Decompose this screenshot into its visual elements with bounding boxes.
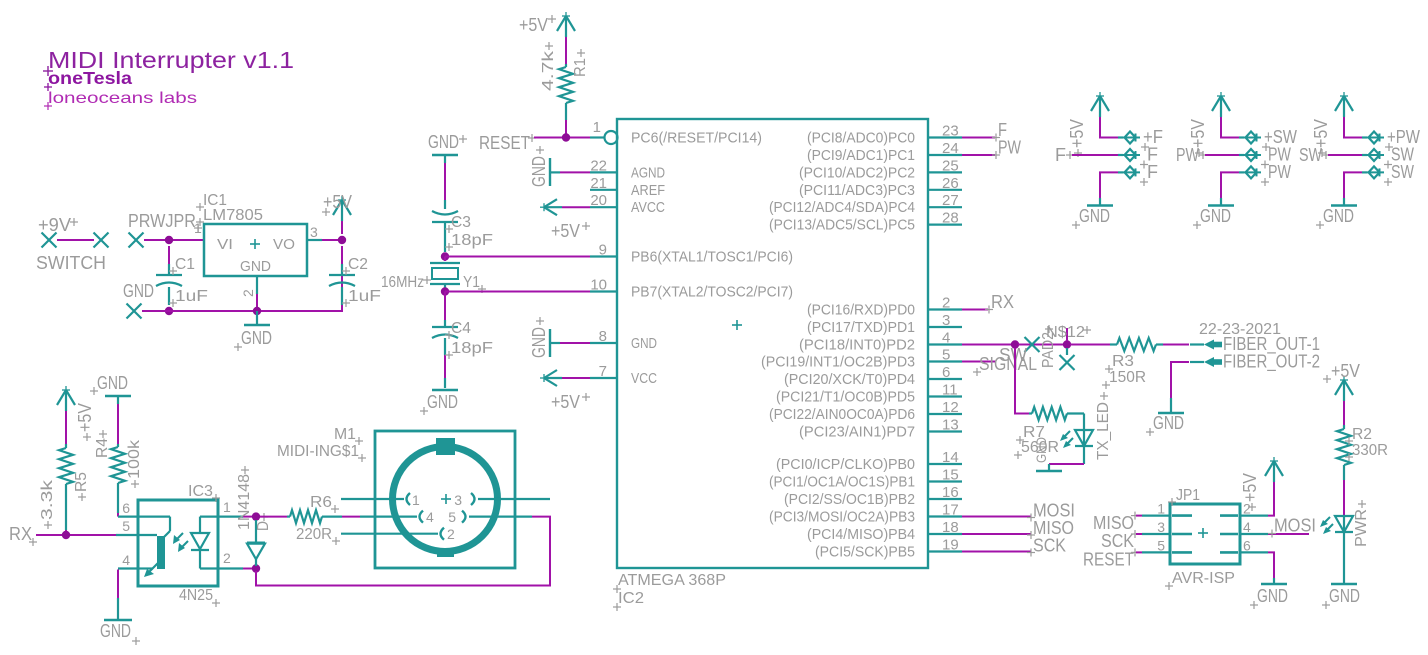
- node +9V: [38, 215, 78, 248]
- wire: [962, 516, 1031, 518]
- svg-text:330R: 330R: [1352, 442, 1388, 459]
- svg-text:GND: GND: [240, 258, 271, 275]
- crystal Y1 16MHz: [381, 257, 486, 294]
- wire: [962, 551, 1031, 553]
- svg-text:11: 11: [942, 382, 958, 399]
- pin 22: [590, 157, 617, 174]
- node SW: [999, 345, 1027, 365]
- wire: [1221, 172, 1239, 198]
- svg-text:SIGNAL: SIGNAL: [979, 354, 1037, 374]
- pad SWITCH: [36, 233, 109, 274]
- svg-text:FIBER_OUT-2: FIBER_OUT-2: [1223, 352, 1320, 373]
- svg-text:SCK: SCK: [1101, 531, 1134, 551]
- ground: [1250, 578, 1288, 609]
- svg-text:(PCI1/OC1A/OC1S)PB1: (PCI1/OC1A/OC1S)PB1: [769, 474, 915, 491]
- svg-text:SW: SW: [1299, 145, 1322, 165]
- svg-text:R3: R3: [1112, 353, 1134, 370]
- pin name (PCI18/INT0)PD2: [799, 337, 915, 354]
- svg-text:JP1: JP1: [1176, 487, 1200, 504]
- node N$12: [1046, 324, 1091, 341]
- svg-text:4: 4: [426, 509, 434, 525]
- pin name (PCI4/MISO)PB4: [807, 526, 915, 543]
- wire: [962, 361, 996, 363]
- pin 17: [928, 502, 962, 519]
- svg-text:MOSI: MOSI: [1274, 516, 1316, 536]
- wire: [243, 568, 252, 570]
- wire: [1268, 482, 1274, 516]
- ground: [100, 598, 140, 645]
- svg-text:1: 1: [194, 220, 202, 236]
- wire: [444, 163, 446, 200]
- svg-text:13: 13: [942, 417, 959, 434]
- pin name (PCI9/ADC1)PC1: [807, 147, 915, 164]
- svg-text:(PCI3/MOSI/OC2A)PB3: (PCI3/MOSI/OC2A)PB3: [769, 509, 915, 526]
- svg-text:AVCC: AVCC: [631, 199, 665, 216]
- svg-text:(PCI0/ICP/CLKO)PB0: (PCI0/ICP/CLKO)PB0: [776, 456, 915, 473]
- capacitor C2 1uF: [329, 246, 381, 307]
- junction: [441, 287, 449, 295]
- pin name (PCI11/ADC3)PC3: [799, 182, 915, 199]
- pin 8: [590, 328, 617, 345]
- resistor R2 330R: [1337, 425, 1388, 480]
- svg-text:2: 2: [223, 550, 231, 566]
- wire: [1163, 344, 1189, 346]
- svg-text:PB6(XTAL1/TOSC1/PCI6): PB6(XTAL1/TOSC1/PCI6): [631, 249, 793, 266]
- power +5V: [322, 192, 352, 221]
- svg-text:4: 4: [942, 330, 950, 347]
- pin 5 of IC3: [116, 518, 138, 535]
- wire: [1018, 344, 1063, 346]
- svg-text:(PCI8/ADC0)PC0: (PCI8/ADC0)PC0: [807, 130, 915, 147]
- pin 13: [928, 417, 962, 434]
- svg-text:R1: R1: [572, 58, 589, 77]
- svg-text:GND: GND: [428, 132, 459, 152]
- svg-text:(PCI10/ADC2)PC2: (PCI10/ADC2)PC2: [799, 164, 915, 181]
- pin 1 of IC3: [218, 499, 243, 517]
- pin 6 of IC3: [118, 500, 138, 517]
- node RESET: [1083, 548, 1142, 569]
- wire: [1100, 117, 1118, 138]
- resistor R5 3.3k: [39, 444, 90, 530]
- wire: [341, 221, 343, 234]
- svg-text:PW: PW: [1268, 162, 1291, 182]
- svg-text:(PCI11/ADC3)PC3: (PCI11/ADC3)PC3: [799, 182, 915, 199]
- power +5V: [1067, 92, 1109, 157]
- pin name AVCC: [631, 199, 665, 216]
- svg-text:3: 3: [1157, 519, 1165, 535]
- svg-text:SCK: SCK: [1033, 536, 1066, 556]
- subtitle loneoceans labs: [44, 90, 197, 110]
- pin 4: [928, 330, 962, 347]
- junction: [252, 564, 260, 572]
- connector pin +PW: [1362, 127, 1420, 151]
- node SCK: [1027, 536, 1066, 557]
- pin name (PCI0/ICP/CLKO)PB0: [776, 456, 915, 473]
- svg-text:RX: RX: [991, 292, 1014, 312]
- svg-text:1uF: 1uF: [175, 288, 208, 305]
- ground: [1033, 437, 1062, 471]
- svg-text:AREF: AREF: [631, 182, 665, 199]
- node PRWJPR: [128, 211, 202, 248]
- svg-text:IC3: IC3: [188, 483, 213, 500]
- wire: [1221, 117, 1239, 138]
- pin 5 of JP1: [1142, 537, 1192, 553]
- wire: [1344, 172, 1362, 198]
- svg-text:(PCI12/ADC4/SDA)PC4: (PCI12/ADC4/SDA)PC4: [769, 199, 915, 216]
- text date: [1199, 321, 1281, 338]
- svg-text:3: 3: [310, 224, 318, 240]
- node F: [1055, 145, 1074, 165]
- svg-text:GND: GND: [1323, 206, 1354, 226]
- wire: [342, 516, 360, 518]
- node MISO: [1027, 518, 1074, 539]
- pin name AREF: [631, 182, 665, 199]
- node MOSI: [1268, 516, 1316, 538]
- wire: [560, 171, 590, 173]
- node SW: [1299, 145, 1330, 165]
- microcontroller IC2 ATMEGA 368P: [613, 119, 928, 611]
- svg-text:GND: GND: [529, 327, 549, 358]
- svg-text:PC6(/RESET/PCI14): PC6(/RESET/PCI14): [631, 130, 762, 147]
- wire: [57, 239, 94, 241]
- ground: [420, 390, 458, 415]
- svg-text:GND: GND: [529, 156, 549, 187]
- wire: [1268, 533, 1309, 535]
- diode D1 1N4148: [236, 466, 272, 566]
- pin 18: [928, 519, 962, 536]
- pin name (PCI20/XCK/T0)PD4: [784, 371, 915, 388]
- wire: [565, 37, 567, 64]
- pin name PB7(XTAL2/TOSC2/PCI7): [631, 284, 793, 301]
- pin 4 of M1: [360, 509, 434, 525]
- svg-text:1: 1: [593, 119, 601, 136]
- svg-text:+5V: +5V: [1188, 119, 1208, 148]
- resistor R4 100k: [94, 404, 143, 513]
- junction: [165, 236, 173, 244]
- node RX: [9, 524, 37, 546]
- wire: [1328, 154, 1362, 156]
- svg-text:1: 1: [223, 499, 231, 515]
- wire: [534, 137, 590, 139]
- svg-text:5: 5: [448, 509, 456, 525]
- node PW: [1176, 145, 1207, 165]
- svg-text:15: 15: [942, 467, 959, 484]
- power +5V: [57, 386, 95, 441]
- pin name (PCI5/SCK)PB5: [815, 544, 915, 561]
- capacitor C1 1uF: [156, 246, 208, 307]
- flag FIBER_OUT-1: [1190, 334, 1320, 355]
- svg-text:loneoceans labs: loneoceans labs: [48, 90, 197, 107]
- svg-text:17: 17: [942, 502, 959, 519]
- pin name (PCI3/MOSI/OC2A)PB3: [769, 509, 915, 526]
- wire: [1070, 344, 1110, 346]
- pin 10: [590, 277, 617, 294]
- pin 23: [928, 123, 962, 140]
- wire: [1171, 362, 1189, 398]
- pin name (PCI21/T1/OC0B)PD5: [776, 389, 915, 406]
- svg-text:2: 2: [240, 289, 256, 297]
- svg-text:MIDI-ING$1: MIDI-ING$1: [277, 443, 359, 460]
- node RESET: [479, 133, 536, 153]
- svg-text:R2: R2: [1352, 426, 1372, 443]
- svg-text:8: 8: [599, 328, 607, 345]
- svg-text:27: 27: [942, 192, 959, 209]
- pin 6: [928, 364, 962, 381]
- pin name (PCI2/SS/OC1B)PB2: [784, 491, 915, 508]
- svg-text:R4: R4: [94, 438, 111, 458]
- svg-text:GND: GND: [1033, 437, 1049, 463]
- pin 27: [928, 192, 962, 209]
- svg-text:18pF: 18pF: [451, 232, 493, 249]
- svg-text:(PCI16/RXD)PD0: (PCI16/RXD)PD0: [807, 302, 915, 319]
- svg-text:(PCI2/SS/OC1B)PB2: (PCI2/SS/OC1B)PB2: [784, 491, 915, 508]
- ground: [529, 146, 560, 187]
- svg-text:GND: GND: [631, 335, 657, 352]
- wire: [1268, 552, 1274, 578]
- pin 12: [928, 399, 962, 416]
- svg-text:VI: VI: [217, 236, 233, 253]
- svg-text:F: F: [1055, 145, 1066, 165]
- svg-text:(PCI20/XCK/T0)PD4: (PCI20/XCK/T0)PD4: [784, 371, 915, 388]
- junction: [338, 236, 346, 244]
- svg-text:Y1: Y1: [463, 274, 480, 291]
- svg-text:PWR: PWR: [1353, 509, 1370, 547]
- svg-text:TX_LED: TX_LED: [1095, 402, 1112, 460]
- pin 25: [928, 157, 962, 174]
- power +5V: [519, 12, 575, 37]
- svg-text:PRWJPR: PRWJPR: [128, 211, 196, 231]
- svg-text:2: 2: [942, 295, 950, 312]
- svg-text:26: 26: [942, 175, 959, 192]
- svg-text:+5V: +5V: [1067, 119, 1087, 148]
- pin 28: [928, 210, 962, 227]
- voltage regulator IC1 M7805: [196, 192, 307, 276]
- svg-text:4N25: 4N25: [179, 587, 213, 604]
- svg-text:GND: GND: [1200, 206, 1231, 226]
- power +5V: [540, 199, 590, 241]
- svg-text:6: 6: [942, 364, 950, 381]
- svg-text:3: 3: [942, 312, 950, 329]
- pin 4 of IC3: [118, 552, 138, 569]
- junction: [165, 307, 173, 315]
- flag FIBER_OUT-2: [1190, 352, 1320, 373]
- svg-text:F: F: [1147, 162, 1158, 182]
- wire: [560, 342, 590, 344]
- wire: [445, 256, 590, 258]
- svg-text:RESET: RESET: [1083, 550, 1134, 570]
- svg-text:VO: VO: [273, 236, 295, 253]
- pin 2: [928, 295, 962, 312]
- svg-text:1: 1: [412, 492, 420, 508]
- junction: [441, 252, 449, 260]
- pin name (PCI23/AIN1)PD7: [799, 424, 915, 441]
- svg-text:+5V: +5V: [1311, 119, 1331, 148]
- pin name PB6(XTAL1/TOSC1/PCI6): [631, 249, 793, 266]
- pin 5 of M1: [448, 509, 532, 525]
- svg-text:RESET: RESET: [479, 133, 530, 153]
- svg-text:6: 6: [122, 500, 130, 516]
- svg-text:(PCI19/INT1/OC2B)PD3: (PCI19/INT1/OC2B)PD3: [761, 354, 915, 371]
- svg-text:GND: GND: [1153, 413, 1184, 433]
- node RX: [985, 292, 1014, 314]
- wire: [1205, 154, 1239, 156]
- svg-text:2: 2: [1243, 501, 1251, 517]
- svg-text:D: D: [255, 521, 272, 531]
- svg-text:3: 3: [454, 492, 462, 508]
- svg-text:(PCI13/ADC5/SCL)PC5: (PCI13/ADC5/SCL)PC5: [769, 217, 915, 234]
- resistor R7 560R: [1014, 407, 1084, 459]
- connector pin SW: [1362, 162, 1414, 186]
- wire: [260, 516, 287, 518]
- pin 15: [928, 467, 962, 484]
- svg-text:MISO: MISO: [1093, 513, 1134, 533]
- svg-text:4: 4: [1243, 519, 1251, 535]
- pin 3 of M1: [454, 492, 550, 508]
- svg-text:(PCI18/INT0)PD2: (PCI18/INT0)PD2: [799, 337, 915, 354]
- wire: [445, 291, 590, 293]
- svg-text:RX: RX: [9, 524, 32, 544]
- wire: [142, 246, 342, 311]
- svg-text:1uF: 1uF: [348, 288, 381, 305]
- svg-text:C1: C1: [175, 256, 195, 273]
- ground: [1146, 398, 1184, 436]
- svg-text:7: 7: [599, 363, 607, 380]
- svg-text:(PCI5/SCK)PB5: (PCI5/SCK)PB5: [815, 544, 915, 561]
- connector pin PW: [1239, 145, 1291, 169]
- wire: [562, 206, 590, 208]
- svg-text:20: 20: [590, 192, 607, 209]
- svg-text:16MHz: 16MHz: [381, 274, 424, 291]
- svg-text:C3: C3: [451, 214, 471, 231]
- wire: [36, 534, 116, 536]
- pin name (PCI16/RXD)PD0: [807, 302, 915, 319]
- ground: [428, 132, 467, 163]
- svg-text:100k: 100k: [126, 440, 143, 479]
- junction: [252, 512, 260, 520]
- svg-text:21: 21: [590, 175, 607, 192]
- pin name AGND: [631, 164, 665, 181]
- svg-text:5: 5: [122, 518, 130, 534]
- junction: [1063, 340, 1071, 348]
- pin 20: [590, 192, 617, 209]
- svg-text:GND: GND: [427, 392, 458, 412]
- pin 1 of M1: [341, 492, 420, 508]
- node SIGNAL: [973, 354, 1037, 376]
- resistor R1 4.7k: [540, 42, 589, 120]
- svg-text:9: 9: [599, 242, 607, 259]
- svg-text:16: 16: [942, 484, 959, 501]
- pin name PC6(/RESET/PCI14): [631, 130, 762, 147]
- wire: [1049, 463, 1084, 465]
- wire: [1343, 480, 1345, 515]
- svg-text:1: 1: [1157, 501, 1165, 517]
- pin 2 of JP1: [1220, 501, 1268, 517]
- svg-text:C2: C2: [348, 256, 368, 273]
- svg-text:+5V: +5V: [75, 403, 95, 432]
- pin 14: [928, 449, 962, 466]
- svg-text:VCC: VCC: [631, 370, 657, 387]
- svg-text:+5V: +5V: [1331, 361, 1360, 381]
- led of IC3: [173, 517, 218, 569]
- ground: [234, 311, 272, 351]
- svg-text:AGND: AGND: [631, 164, 665, 181]
- wire: [962, 344, 1012, 346]
- svg-text:GND: GND: [1079, 206, 1110, 226]
- wire: [144, 239, 204, 241]
- pin 11: [928, 382, 962, 399]
- wire: [65, 530, 67, 535]
- subtitle oneTesla: [44, 68, 132, 91]
- svg-text:GND: GND: [100, 621, 131, 641]
- connector pin +SW: [1239, 127, 1297, 151]
- svg-text:(PCI17/TXD)PD1: (PCI17/TXD)PD1: [807, 319, 915, 336]
- ground: [1072, 198, 1113, 229]
- pin name (PCI13/ADC5/SCL)PC5: [769, 217, 915, 234]
- pin 16: [928, 484, 962, 501]
- pin 1 of JP1: [1142, 501, 1192, 517]
- pin 1 of IC1: [194, 220, 202, 236]
- pin 1 PC6 with inversion bubble: [590, 119, 618, 144]
- capacitor C3 18pF: [432, 200, 493, 252]
- pin name (PCI1/OC1A/OC1S)PB1: [769, 474, 915, 491]
- svg-text:M1: M1: [334, 426, 356, 443]
- power +5V: [1188, 92, 1230, 157]
- svg-text:10: 10: [590, 277, 607, 294]
- svg-text:+9V: +9V: [38, 215, 71, 235]
- svg-text:(PCI9/ADC1)PC1: (PCI9/ADC1)PC1: [807, 147, 915, 164]
- node SCK: [1101, 530, 1142, 551]
- wire: [117, 570, 119, 599]
- pin 19: [928, 537, 962, 554]
- svg-text:24: 24: [942, 140, 959, 157]
- wire: [562, 377, 590, 379]
- svg-text:4: 4: [122, 552, 130, 568]
- connector pin F: [1118, 145, 1158, 169]
- pin 2 of M1: [341, 526, 455, 542]
- svg-text:+5V: +5V: [551, 392, 580, 412]
- pin 7: [590, 363, 617, 380]
- svg-text:GND: GND: [241, 328, 272, 348]
- svg-text:PB7(XTAL2/TOSC2/PCI7): PB7(XTAL2/TOSC2/PCI7): [631, 284, 793, 301]
- junction: [1011, 340, 1019, 348]
- wire: [322, 239, 342, 241]
- svg-text:R5: R5: [73, 472, 90, 492]
- pad GND: [123, 281, 154, 319]
- svg-text:14: 14: [942, 449, 959, 466]
- svg-text:oneTesla: oneTesla: [48, 68, 132, 88]
- svg-text:(PCI22/AIN0OC0A)PD6: (PCI22/AIN0OC0A)PD6: [769, 406, 915, 423]
- wire: [1100, 172, 1118, 198]
- svg-text:+5V: +5V: [323, 192, 352, 212]
- junction: [562, 133, 570, 141]
- wire: [962, 309, 988, 311]
- svg-text:+5V: +5V: [1240, 473, 1260, 502]
- wire: [565, 120, 567, 134]
- svg-text:4.7k: 4.7k: [540, 51, 557, 91]
- svg-text:19: 19: [942, 537, 959, 554]
- connector pin F: [1118, 162, 1158, 186]
- wire: [243, 516, 252, 518]
- svg-text:12: 12: [942, 399, 959, 416]
- svg-text:(PCI23/AIN1)PD7: (PCI23/AIN1)PD7: [799, 424, 915, 441]
- pin 6 of JP1: [1220, 537, 1268, 553]
- pin 21: [590, 175, 617, 192]
- led TX_LED: [1060, 392, 1112, 464]
- wire: [1344, 117, 1362, 138]
- capacitor C4 18pF: [432, 292, 493, 389]
- connector pin +F: [1118, 127, 1163, 151]
- pin 3 of IC1: [307, 224, 322, 240]
